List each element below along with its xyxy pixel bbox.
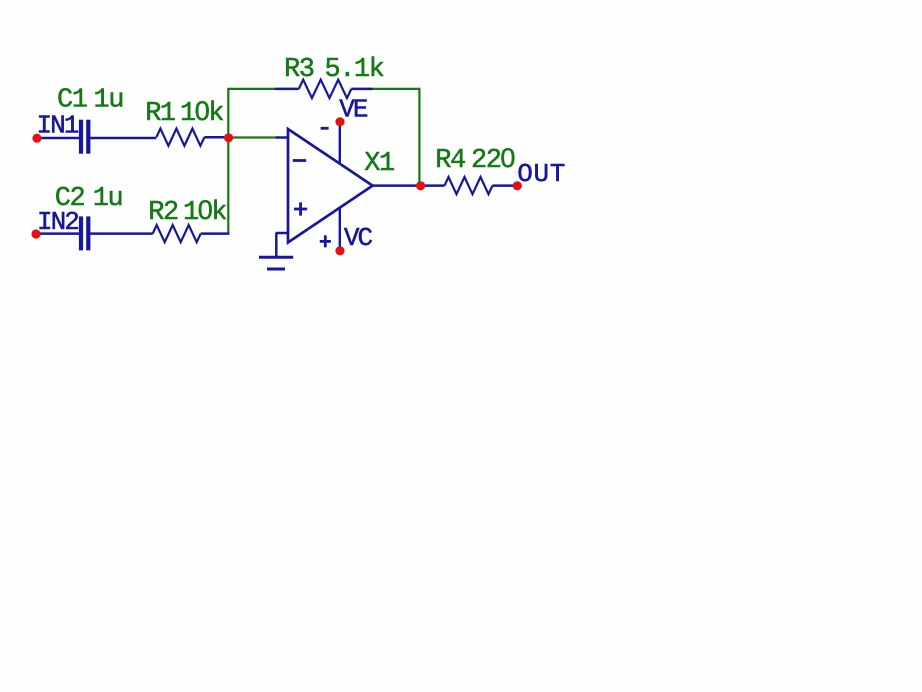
svg-text:VC: VC [344, 223, 373, 253]
svg-text:220: 220 [471, 143, 514, 176]
svg-text:1u: 1u [93, 184, 122, 214]
svg-text:R3: R3 [284, 55, 314, 85]
svg-text:VE: VE [339, 95, 368, 125]
svg-text:R2: R2 [148, 198, 178, 228]
svg-text:10k: 10k [180, 96, 223, 129]
svg-text:5.1k: 5.1k [325, 55, 384, 85]
svg-text:OUT: OUT [517, 159, 566, 189]
svg-text:IN2: IN2 [37, 207, 78, 237]
svg-text:10k: 10k [183, 195, 226, 228]
svg-text:R4: R4 [435, 146, 465, 176]
svg-text:IN1: IN1 [37, 111, 79, 141]
svg-text:X1: X1 [364, 149, 394, 179]
svg-text:R1: R1 [145, 99, 175, 129]
svg-text:1u: 1u [94, 86, 123, 116]
